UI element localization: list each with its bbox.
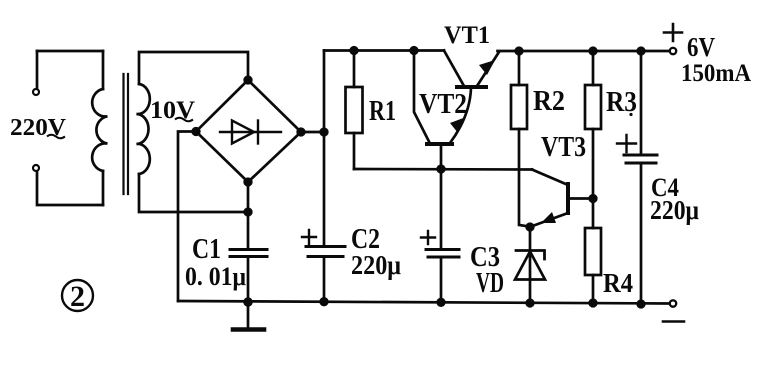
node control/C3 [438,166,445,173]
transistor VT2 [414,51,471,170]
node R4 bottom [590,300,597,307]
node bridge left [193,128,200,135]
figure number circled 2 [62,280,93,311]
svg-text:C1: C1 [192,233,221,265]
tilde under 10V [175,118,193,122]
resistor R2 [511,51,529,227]
wire top rail right [498,50,670,53]
wire primary right upper [102,51,105,89]
svg-text:VD: VD [476,267,504,299]
wire primary left upper [36,51,39,88]
svg-text:VT1: VT1 [444,22,490,49]
node bridge right [298,129,305,136]
capacitor C4 [617,51,657,304]
node C2 bottom [321,298,328,305]
svg-text:150mA: 150mA [681,60,751,87]
node R3 top [590,48,597,55]
transistor VT1 [444,51,499,88]
node VT2 collector top [411,47,418,54]
svg-text:VT2: VT2 [419,89,467,120]
svg-text:R2: R2 [533,86,565,117]
bridge inner diode [220,121,281,144]
svg-text:VT3: VT3 [541,132,586,163]
capacitor C2 [302,230,345,302]
wire bottom rail [178,301,670,304]
wire secondary bottom [139,174,248,212]
svg-text:10V: 10V [150,97,195,124]
terminal output plus [670,48,676,54]
svg-text:R4: R4 [603,268,633,298]
node C4 top [638,48,645,55]
wire secondary top [139,52,248,84]
resistor R4 [585,228,601,303]
tilde under 220V [47,135,65,139]
svg-text:6V: 6V [687,32,715,62]
node VD bottom [527,300,534,307]
wire top rail left [324,49,444,52]
transistor VT3 [531,170,593,227]
node VD top [527,224,534,231]
minus sign output [663,320,684,323]
ground [233,302,264,330]
node bridge top [245,77,252,84]
node C4 bottom [638,301,645,308]
node C1 bottom [245,299,252,306]
wire raw dc vertical [323,51,326,247]
resistor R1 [346,51,363,170]
terminal primary top [33,89,39,95]
plus sign output [664,24,682,41]
wire DC minus from bridge left [178,132,196,302]
wire control bus [354,168,532,171]
svg-text:0. 01μ: 0. 01μ [185,262,246,291]
transformer secondary winding [137,84,150,174]
terminal primary bottom [33,165,39,171]
wire primary top [37,50,103,53]
svg-text:2: 2 [70,280,85,313]
node bridge bottom [245,179,252,186]
wire primary right lower [102,171,105,205]
bridge rectifier outline [196,80,301,182]
node VT3 base [590,195,597,202]
wire primary left lower [37,172,103,205]
ink speck [629,113,632,116]
wire DC plus from bridge right [301,131,324,134]
transformer core [124,74,129,194]
svg-text:R1: R1 [369,95,396,127]
node secondary-bottom junction [245,209,252,216]
svg-text:R3: R3 [606,87,637,118]
svg-text:220μ: 220μ [351,250,401,280]
node C3 bottom [438,299,445,306]
svg-text:220μ: 220μ [650,195,699,225]
terminal output minus [670,300,676,306]
capacitor C3 [421,169,459,302]
transformer primary winding [92,89,107,171]
node R2 top [516,48,523,55]
resistor R3 [585,51,601,228]
capacitor C1 [230,212,267,302]
node R1 top [351,47,358,54]
zener diode VD [515,227,545,303]
node raw dc [321,129,328,136]
